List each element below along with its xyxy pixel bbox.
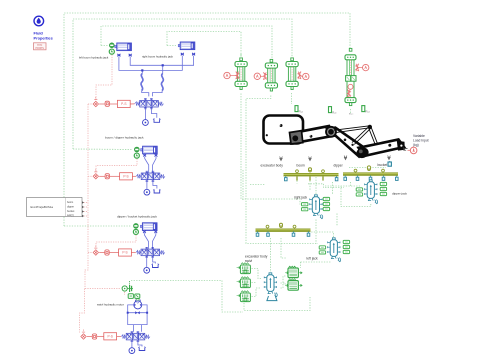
block: command signal source xyxy=(27,198,85,218)
label: variable load input xyxy=(413,134,429,147)
svg-text:boom: boom xyxy=(297,164,306,168)
wire: chain 4 links xyxy=(87,336,121,338)
wire xyxy=(84,202,89,204)
friction F4 xyxy=(356,64,359,72)
valve V1: boom directional valve xyxy=(135,99,164,109)
gear block GR1 xyxy=(285,266,302,278)
svg-text:bucket: bucket xyxy=(378,163,388,167)
wire: boom jacks to valve manifold xyxy=(119,56,194,97)
wire xyxy=(244,297,310,311)
reference circle under V4 xyxy=(129,348,135,354)
wire xyxy=(73,19,292,149)
wire xyxy=(80,289,85,333)
excavator drawing: boom-dipper joint xyxy=(326,127,336,137)
wire xyxy=(64,225,131,227)
wire xyxy=(300,262,302,268)
svg-text:right jack: right jack xyxy=(294,196,308,200)
svg-text:(kg): (kg) xyxy=(413,143,419,147)
port icon P1 xyxy=(295,106,304,114)
down arrow: excavator body xyxy=(280,157,283,161)
converter block T4 (tall, bucket) xyxy=(345,48,356,105)
sensor circle M3 xyxy=(301,73,309,79)
valve V2: dipper directional valve xyxy=(136,171,165,181)
label: excavator body swivel xyxy=(245,255,268,263)
svg-text:swivl hydraulic motor: swivl hydraulic motor xyxy=(97,303,124,307)
wire xyxy=(85,288,121,290)
down arrow: bucket xyxy=(388,156,391,160)
block: P-S converter PS4 xyxy=(104,333,117,340)
svg-text:left jack: left jack xyxy=(307,257,319,261)
wire xyxy=(242,170,244,200)
wire xyxy=(246,96,318,244)
reference circle under V2 xyxy=(144,189,150,195)
svg-text:bucket: bucket xyxy=(67,210,75,213)
block: P-S converter PS2 xyxy=(120,173,133,180)
excavator drawing: boom root joint xyxy=(290,131,303,144)
wire xyxy=(308,184,344,188)
solver config block xyxy=(34,43,47,50)
wire xyxy=(350,182,352,186)
wire: dipper to bucket port xyxy=(349,167,386,169)
wire xyxy=(311,232,334,237)
wire xyxy=(350,109,352,114)
wire xyxy=(281,238,286,258)
wire xyxy=(84,215,89,217)
green connection wires (dashed) xyxy=(64,13,371,312)
svg-text:Variable: Variable xyxy=(413,134,425,138)
hose: right segment xyxy=(161,74,163,91)
rigid body bar: excavator body xyxy=(256,223,311,236)
svg-text:R₂ₑ: R₂ₑ xyxy=(299,110,304,114)
block: pilot square S2 xyxy=(105,174,110,179)
svg-text:boom / dipper hydraulic jack: boom / dipper hydraulic jack xyxy=(105,136,144,140)
svg-text:R₂ₑ: R₂ₑ xyxy=(365,110,370,114)
svg-text:Exc4TrajwBUS1a: Exc4TrajwBUS1a xyxy=(31,205,54,209)
down arrow: dipper xyxy=(344,156,347,160)
tank under V4 xyxy=(138,347,146,351)
wire xyxy=(341,186,371,207)
hydraulic cylinder: right boom jack xyxy=(178,42,195,55)
rotational block RB3 xyxy=(237,291,251,302)
flange: swivel shaft bars xyxy=(127,281,133,292)
wire: motor loop with check valve xyxy=(128,305,147,332)
check valve bowtie xyxy=(135,311,140,314)
sensor circle M4 xyxy=(359,64,369,70)
wire xyxy=(252,269,262,279)
reference circle under V1 xyxy=(143,120,149,126)
wire: cylinder 2 to valve V2 xyxy=(145,157,156,173)
wire xyxy=(84,211,89,213)
wire xyxy=(332,182,334,195)
valve V4: swivel directional valve xyxy=(121,332,150,342)
wire xyxy=(296,181,298,184)
svg-text:Properties: Properties xyxy=(34,35,53,40)
wire xyxy=(101,26,272,58)
wire xyxy=(124,292,126,295)
excavator drawing: bucket linkage xyxy=(334,125,379,148)
hydraulic cylinder: boom/dipper jack xyxy=(141,146,158,156)
converter block T3 xyxy=(286,58,298,90)
svg-text:dipper: dipper xyxy=(67,205,74,208)
friction F1 xyxy=(236,71,239,79)
wire: chain 2 links xyxy=(99,175,136,177)
wire: valve V1 to tank/reference xyxy=(145,109,156,120)
wire xyxy=(336,214,338,227)
pilot valve X2 xyxy=(93,169,98,179)
wire xyxy=(96,55,112,101)
port icon P3 xyxy=(362,106,371,114)
wire xyxy=(291,93,293,104)
wire xyxy=(241,94,300,205)
wire: chain 3 links xyxy=(99,252,136,254)
wire xyxy=(301,261,332,263)
node R3: dipper/bucket jack ports xyxy=(133,223,138,234)
pilot valve X4 xyxy=(81,330,86,340)
pilot valve X1 xyxy=(93,97,98,107)
svg-text:Load Input: Load Input xyxy=(413,139,429,143)
wire xyxy=(315,177,317,194)
joint block: dipper jack xyxy=(356,180,386,204)
wire xyxy=(167,32,241,58)
wire xyxy=(131,281,243,313)
tank under V2 xyxy=(153,189,161,193)
wire xyxy=(252,282,257,284)
reference circle under V3 xyxy=(144,267,150,273)
red signal wires (dashed) xyxy=(80,55,138,333)
wire xyxy=(88,103,92,105)
wire xyxy=(73,148,132,151)
joint block: right jack xyxy=(302,195,330,219)
svg-text:swivl: swivl xyxy=(245,259,252,263)
friction F5 lower T4 xyxy=(347,89,350,97)
svg-text:boom: boom xyxy=(67,201,73,204)
wire xyxy=(96,159,137,173)
node R2: boom/dipper jack ports xyxy=(134,147,139,158)
wire xyxy=(96,235,136,249)
wire: valve V2 to tank/reference xyxy=(147,182,157,190)
wire: chain 1 links xyxy=(99,103,134,105)
valve V3: bucket directional valve xyxy=(136,247,165,257)
sensor ring mid T4 xyxy=(348,84,353,89)
block: P-S converter PS3 xyxy=(119,249,132,256)
port: bucket frame xyxy=(388,161,391,166)
svg-text:e₂₌: e₂₌ xyxy=(349,112,354,116)
block: P-S converter PS1 xyxy=(117,100,130,107)
input port: variable load xyxy=(404,147,417,154)
wire: valve V4 to tank/reference xyxy=(132,342,142,348)
joint block: left jack xyxy=(319,238,349,262)
wire xyxy=(250,184,265,186)
wire xyxy=(85,104,88,289)
wire xyxy=(101,45,108,47)
wire xyxy=(167,45,176,47)
svg-text:dipper / bucket hydraulic jack: dipper / bucket hydraulic jack xyxy=(117,215,157,219)
gear block GR2 xyxy=(285,279,302,291)
rigid body bar: boom xyxy=(284,168,339,181)
block: pilot square S1 xyxy=(105,101,110,106)
junction dots xyxy=(141,64,164,71)
wire xyxy=(252,288,262,297)
fluid properties block xyxy=(34,16,53,40)
rigid body bar: dipper xyxy=(343,166,398,180)
wire: cylinder 3 to valve V3 xyxy=(145,233,156,249)
wire: valve V3 to tank/reference xyxy=(147,258,156,268)
svg-text:R₂ₑ: R₂ₑ xyxy=(332,111,337,115)
block: pilot square S4 xyxy=(92,334,97,339)
svg-text:right boom hydraulic jack: right boom hydraulic jack xyxy=(142,55,174,59)
port icon P2 xyxy=(329,107,338,115)
sensor circle M2 xyxy=(254,73,263,79)
wire xyxy=(84,206,89,208)
sensor circle M1 xyxy=(224,72,236,78)
svg-text:swi(z): swi(z) xyxy=(67,214,74,217)
excavator drawing: boom link xyxy=(291,126,334,143)
hose: left segment xyxy=(141,74,143,91)
sensor: swivel angle ring xyxy=(122,286,127,291)
wire: boom bar stub routes xyxy=(297,181,344,190)
motor: swivel hydraulic motor xyxy=(134,300,142,309)
hydraulic cylinder: dipper/bucket jack xyxy=(140,223,157,233)
junction dots on loop xyxy=(127,312,148,314)
excavator drawing: body xyxy=(264,116,304,144)
rotational block RB1 xyxy=(237,263,251,274)
wire: jack3 rod to converter T4 xyxy=(64,13,350,226)
wire xyxy=(281,276,287,288)
friction F3 xyxy=(298,71,301,79)
wire xyxy=(325,185,360,187)
hydraulic cylinder: left boom jack xyxy=(115,43,132,56)
block: swivel gear green xyxy=(128,294,140,301)
tank under V1 xyxy=(153,118,161,122)
wire xyxy=(281,283,287,284)
svg-text:left boom hydraulic jack: left boom hydraulic jack xyxy=(79,56,109,60)
converter block T1 xyxy=(235,54,247,90)
tank under V3 xyxy=(152,264,160,268)
node R1: left boom jack ports xyxy=(109,43,114,54)
wire xyxy=(88,252,92,254)
wire xyxy=(309,181,311,190)
pilot valve X3 xyxy=(93,246,98,256)
wire xyxy=(315,220,317,244)
svg-text:dipper: dipper xyxy=(334,164,344,168)
friction F2 xyxy=(263,72,266,80)
down arrow: boom xyxy=(309,157,312,161)
excavator drawing: bucket joint blob xyxy=(355,146,370,160)
rotational block RB2 xyxy=(237,277,251,288)
svg-text:PROPS: PROPS xyxy=(36,47,45,50)
converter block T2 xyxy=(265,59,277,91)
svg-text:excavator body: excavator body xyxy=(261,164,284,168)
joint block: excavator body swivel xyxy=(264,273,277,301)
wire xyxy=(88,175,92,177)
block: pilot square S3 xyxy=(104,250,109,255)
excavator drawing: dipper link xyxy=(328,128,366,157)
svg-text:dipper jack: dipper jack xyxy=(392,192,407,196)
wire xyxy=(270,238,272,272)
excavator drawing: bucket link xyxy=(359,140,405,157)
